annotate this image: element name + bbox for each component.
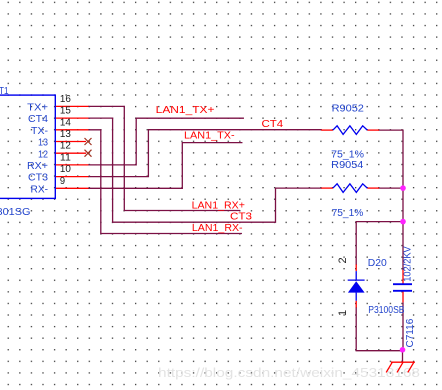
svg-text:T1: T1: [0, 86, 9, 97]
svg-text:15: 15: [60, 106, 71, 117]
svg-text:CT3: CT3: [28, 173, 48, 184]
svg-text:12: 12: [38, 149, 48, 160]
svg-text:10: 10: [60, 164, 71, 175]
svg-text:12: 12: [60, 141, 71, 152]
svg-text:CT4: CT4: [262, 119, 284, 130]
svg-text:LAN1_RX+: LAN1_RX+: [192, 200, 245, 211]
svg-text:D20: D20: [368, 258, 387, 269]
svg-text:R9052: R9052: [332, 103, 365, 114]
svg-text:102/2KV: 102/2KV: [402, 246, 413, 282]
svg-text:75_1%: 75_1%: [332, 208, 364, 219]
svg-text:RX-: RX-: [31, 184, 49, 195]
svg-text:https://blog.csdn.net/weixin_4: https://blog.csdn.net/weixin_45318168: [158, 365, 420, 380]
svg-text:1: 1: [337, 310, 349, 316]
svg-text:LAN1_TX+: LAN1_TX+: [156, 105, 215, 116]
svg-text:LAN1_TX-: LAN1_TX-: [184, 131, 235, 142]
svg-text:CT3: CT3: [230, 212, 252, 223]
svg-text:13: 13: [38, 138, 48, 149]
svg-text:75_1%: 75_1%: [331, 150, 364, 161]
svg-text:P3100SB: P3100SB: [368, 305, 404, 316]
svg-text:LAN1_RX-: LAN1_RX-: [192, 223, 243, 234]
svg-text:16: 16: [60, 94, 71, 105]
svg-text:C7116: C7116: [405, 318, 416, 347]
svg-text:2: 2: [337, 257, 349, 263]
svg-text:TX+: TX+: [27, 103, 48, 114]
svg-text:TX-: TX-: [31, 126, 48, 137]
svg-text:9: 9: [60, 176, 66, 187]
svg-text:13: 13: [60, 129, 71, 140]
svg-text:11: 11: [60, 152, 71, 163]
svg-text:14: 14: [60, 117, 71, 128]
svg-text:801SG: 801SG: [0, 207, 31, 218]
svg-text:CT4: CT4: [28, 114, 48, 125]
svg-text:RX+: RX+: [27, 161, 48, 172]
svg-text:R9054: R9054: [331, 160, 364, 171]
